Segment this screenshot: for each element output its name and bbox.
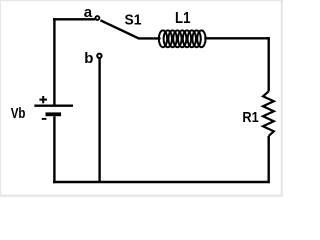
wire: left vertical, top rail down to battery positive plate: [53, 18, 55, 105]
svg-text:a: a: [84, 4, 93, 21]
wire: right vertical, corner down to resistor R1 top: [268, 37, 270, 91]
wire: top rail from left branch to switch terminal a: [53, 18, 95, 20]
inductor L1 (coil of 9 loops): [159, 30, 206, 47]
svg-text:L1: L1: [175, 10, 191, 27]
wire: switch arm to inductor L1 left lead: [139, 37, 161, 39]
battery Vb positive plate (long thin): [34, 105, 73, 107]
node a (switch throw terminal, open circle): [95, 16, 99, 20]
wire: right vertical, resistor R1 bottom down to bottom rail: [268, 136, 270, 183]
svg-text:b: b: [84, 50, 93, 67]
battery Vb negative plate (short thick): [46, 112, 62, 116]
resistor R1 (zigzag): [263, 91, 274, 136]
label + (battery positive): [39, 96, 47, 103]
svg-text:R1: R1: [242, 109, 258, 126]
wire: left vertical, battery negative plate down to bottom rail: [53, 116, 55, 183]
node b (switch alternate terminal, open circle): [97, 54, 101, 58]
wire: from terminal b down to bottom rail: [98, 59, 100, 182]
svg-text:Vb: Vb: [11, 106, 26, 122]
svg-text:S1: S1: [125, 13, 142, 29]
wire: inductor L1 right lead to top-right corner: [204, 37, 269, 39]
label - (battery negative): [42, 118, 47, 120]
wire: bottom rail: [53, 181, 270, 184]
switch S1 arm (pole lever from a down to inductor lead): [100, 20, 139, 38]
